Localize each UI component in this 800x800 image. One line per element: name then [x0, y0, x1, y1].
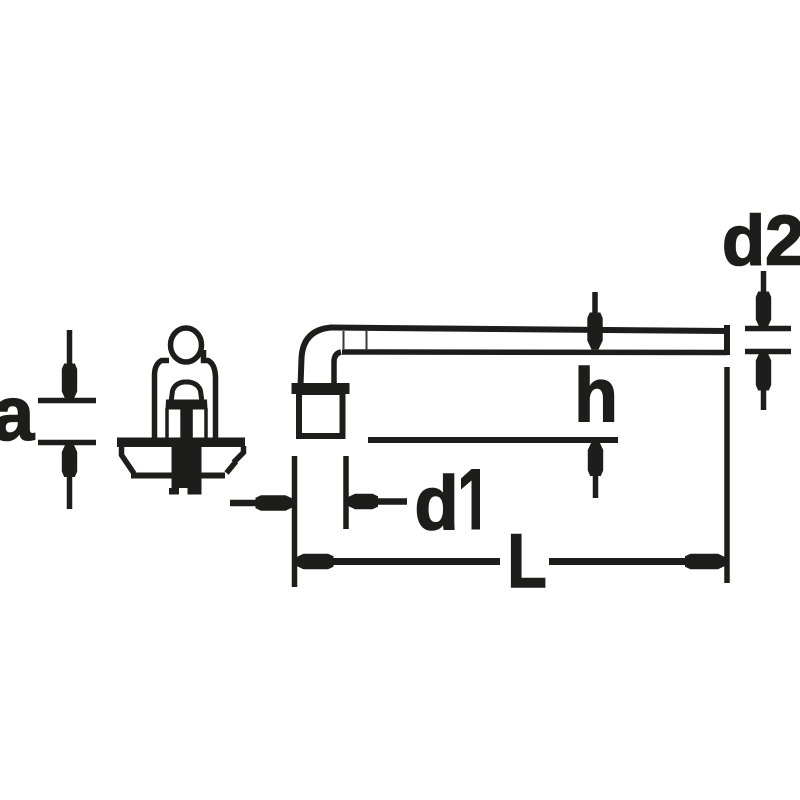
- svg-text:L: L: [507, 518, 546, 603]
- svg-text:h: h: [574, 352, 618, 438]
- svg-text:d2: d2: [722, 201, 800, 280]
- svg-text:a: a: [0, 372, 35, 457]
- svg-text:d: d: [415, 460, 459, 545]
